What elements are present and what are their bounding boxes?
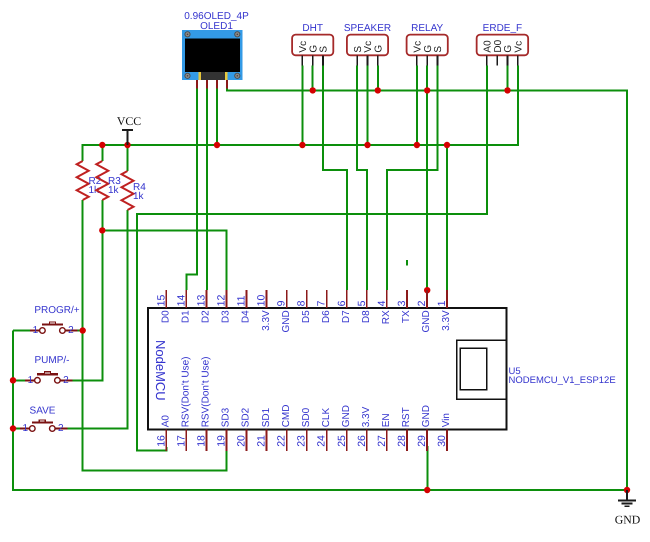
svg-text:8: 8: [296, 300, 308, 306]
svg-text:D1: D1: [181, 310, 192, 323]
svg-text:1k: 1k: [108, 185, 120, 196]
svg-text:25: 25: [336, 435, 348, 447]
svg-text:SD0: SD0: [301, 407, 312, 427]
svg-text:CMD: CMD: [281, 405, 292, 428]
svg-text:17: 17: [175, 435, 187, 447]
svg-text:GND: GND: [421, 405, 432, 427]
svg-text:EN: EN: [381, 413, 392, 427]
svg-text:OLED1: OLED1: [200, 21, 233, 32]
svg-text:PROGR/+: PROGR/+: [34, 305, 79, 316]
svg-text:1: 1: [23, 423, 29, 434]
svg-text:D2: D2: [201, 310, 212, 323]
svg-text:12: 12: [215, 295, 227, 307]
svg-text:GND: GND: [341, 405, 352, 427]
svg-text:TX: TX: [401, 310, 412, 323]
svg-text:3.3V: 3.3V: [441, 310, 452, 331]
svg-text:GND: GND: [615, 513, 641, 527]
svg-text:19: 19: [215, 435, 227, 447]
svg-text:16: 16: [155, 435, 167, 447]
svg-text:27: 27: [376, 435, 388, 447]
svg-text:S: S: [433, 46, 444, 53]
svg-text:S: S: [319, 46, 330, 53]
svg-text:PUMP/-: PUMP/-: [35, 355, 70, 366]
svg-text:10: 10: [256, 295, 268, 307]
svg-text:1k: 1k: [133, 191, 145, 202]
svg-text:7: 7: [316, 300, 328, 306]
svg-text:D6: D6: [321, 310, 332, 323]
svg-text:Vin: Vin: [441, 413, 452, 427]
svg-text:NodeMCU: NodeMCU: [153, 340, 168, 401]
svg-text:D8: D8: [361, 310, 372, 323]
svg-text:Vc: Vc: [513, 41, 524, 53]
svg-text:NODEMCU_V1_ESP12E: NODEMCU_V1_ESP12E: [509, 375, 616, 386]
svg-text:SD1: SD1: [261, 407, 272, 427]
svg-text:20: 20: [236, 435, 248, 447]
svg-text:24: 24: [316, 435, 328, 447]
svg-text:DHT: DHT: [302, 23, 323, 34]
svg-text:2: 2: [63, 375, 69, 386]
svg-text:9: 9: [276, 300, 288, 306]
svg-text:30: 30: [436, 435, 448, 447]
svg-text:SD3: SD3: [221, 407, 232, 427]
svg-text:14: 14: [175, 295, 187, 307]
svg-text:29: 29: [416, 435, 428, 447]
svg-text:SD2: SD2: [241, 407, 252, 427]
svg-text:SAVE: SAVE: [30, 406, 56, 417]
svg-text:D3: D3: [221, 310, 232, 323]
svg-text:3: 3: [396, 300, 408, 306]
svg-text:A0: A0: [161, 415, 172, 428]
svg-text:21: 21: [256, 435, 268, 447]
svg-text:SPEAKER: SPEAKER: [344, 23, 391, 34]
svg-text:23: 23: [296, 435, 308, 447]
svg-text:22: 22: [276, 435, 288, 447]
svg-text:RX: RX: [381, 310, 392, 324]
svg-text:3.3V: 3.3V: [361, 406, 372, 427]
svg-text:VCC: VCC: [117, 114, 141, 128]
svg-text:2: 2: [58, 423, 64, 434]
svg-text:1: 1: [28, 375, 34, 386]
svg-text:5: 5: [356, 300, 368, 306]
svg-text:2: 2: [68, 325, 74, 336]
svg-text:4: 4: [376, 300, 388, 306]
svg-text:RST: RST: [401, 407, 412, 427]
svg-text:28: 28: [396, 435, 408, 447]
svg-text:3.3V: 3.3V: [261, 310, 272, 331]
svg-text:RELAY: RELAY: [411, 23, 443, 34]
svg-text:D5: D5: [301, 310, 312, 323]
svg-text:GND: GND: [421, 310, 432, 332]
svg-text:D7: D7: [341, 310, 352, 323]
svg-text:CLK: CLK: [321, 408, 332, 428]
svg-text:2: 2: [416, 300, 428, 306]
svg-text:15: 15: [155, 295, 167, 307]
svg-text:1: 1: [33, 325, 39, 336]
svg-text:RSV(Don't Use): RSV(Don't Use): [181, 356, 192, 427]
svg-text:18: 18: [195, 435, 207, 447]
svg-text:26: 26: [356, 435, 368, 447]
svg-text:GND: GND: [281, 310, 292, 332]
svg-text:G: G: [373, 45, 384, 53]
svg-text:ERDE_F: ERDE_F: [483, 23, 522, 34]
svg-text:6: 6: [336, 300, 348, 306]
svg-text:RSV(Don't Use): RSV(Don't Use): [201, 356, 212, 427]
svg-text:11: 11: [236, 295, 248, 306]
svg-text:13: 13: [195, 295, 207, 307]
svg-text:1: 1: [436, 300, 448, 306]
svg-text:D4: D4: [241, 310, 252, 323]
svg-text:D0: D0: [161, 310, 172, 323]
